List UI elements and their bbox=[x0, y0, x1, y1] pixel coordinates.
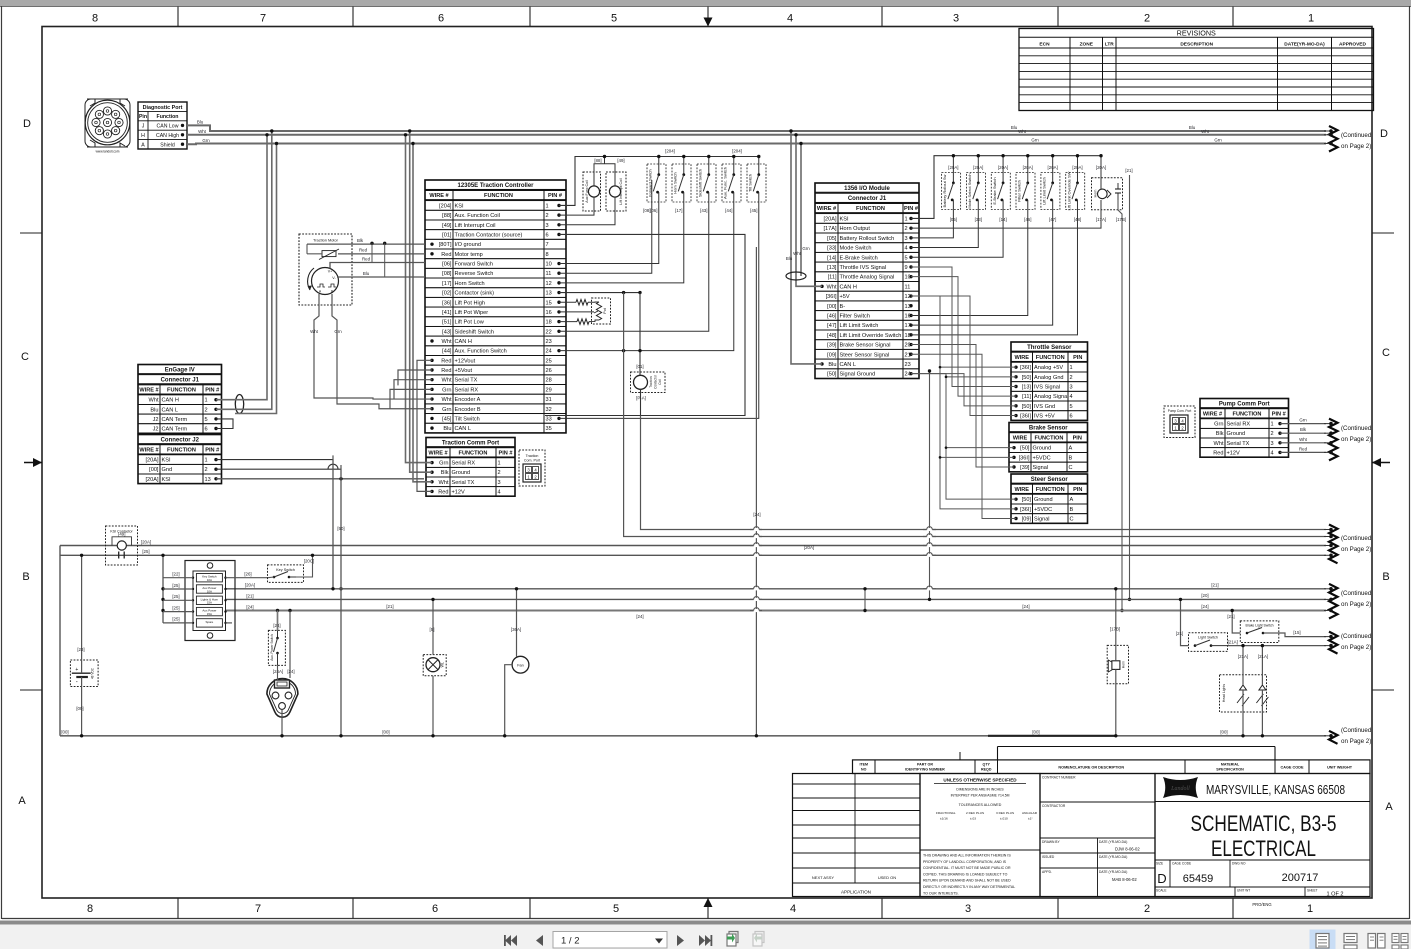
traction comm port left wires bbox=[430, 461, 433, 493]
switch S7 Mode Select Switch bbox=[967, 173, 986, 210]
Throttle Sensor table bbox=[1011, 342, 1088, 420]
svg-text:4: 4 bbox=[498, 489, 501, 495]
svg-text:Shield: Shield bbox=[160, 142, 175, 148]
svg-text:FUNCTION: FUNCTION bbox=[1036, 355, 1065, 361]
svg-text:PIN #: PIN # bbox=[1272, 411, 1287, 417]
svg-text:5: 5 bbox=[205, 417, 208, 423]
svg-text:PIN: PIN bbox=[1073, 435, 1082, 441]
svg-text:Signal: Signal bbox=[1033, 465, 1049, 471]
svg-text:KSI: KSI bbox=[162, 477, 171, 483]
svg-text:FUNCTION: FUNCTION bbox=[1233, 411, 1262, 417]
svg-text:[21]: [21] bbox=[1227, 614, 1234, 619]
svg-text:4: 4 bbox=[1271, 450, 1274, 456]
svg-text:Blu: Blu bbox=[828, 362, 836, 368]
svg-text:23: 23 bbox=[905, 362, 911, 368]
svg-text:1356 I/O Module: 1356 I/O Module bbox=[844, 186, 890, 192]
1356 I/O Module table bbox=[815, 183, 919, 379]
motor wires Blk Red to controller pins 7 8 bbox=[307, 243, 425, 245]
svg-text:DATE (YR-MO-DA): DATE (YR-MO-DA) bbox=[1099, 870, 1127, 874]
vertical net x333 bbox=[332, 455, 334, 588]
svg-text:1: 1 bbox=[1070, 365, 1073, 371]
fan M2 bbox=[512, 656, 529, 673]
diagnostic port table bbox=[138, 102, 187, 149]
svg-text:[80T]: [80T] bbox=[439, 242, 452, 248]
svg-text:INTERPRET PER ANSI/ASME Y14.5M: INTERPRET PER ANSI/ASME Y14.5M bbox=[951, 794, 1010, 798]
svg-text:ITEM: ITEM bbox=[859, 762, 868, 766]
toolbar last-page button bbox=[699, 935, 712, 946]
I/O switch feed bus 20A bbox=[911, 156, 1101, 219]
svg-text:Horn Switch: Horn Switch bbox=[455, 281, 485, 287]
svg-text:UNIT WEIGHT: UNIT WEIGHT bbox=[1327, 765, 1353, 769]
svg-text:PIN #: PIN # bbox=[548, 193, 563, 199]
svg-text:[39]: [39] bbox=[827, 343, 837, 349]
svg-text:CAGE CODE: CAGE CODE bbox=[1281, 765, 1304, 769]
revisions table bbox=[1019, 29, 1374, 111]
svg-text:Ground: Ground bbox=[1034, 497, 1053, 503]
svg-text:[20A]: [20A] bbox=[1072, 165, 1082, 170]
svg-text:±1°: ±1° bbox=[1028, 817, 1033, 821]
vertical net from traction area x682 bbox=[681, 202, 683, 283]
svg-text:DESCRIPTION: DESCRIPTION bbox=[1180, 41, 1213, 47]
svg-text:NO: NO bbox=[861, 767, 867, 771]
svg-text:DJW 8-06-02: DJW 8-06-02 bbox=[1115, 847, 1140, 852]
svg-text:[43]: [43] bbox=[442, 329, 452, 335]
svg-text:13: 13 bbox=[546, 291, 552, 297]
svg-text:[50]: [50] bbox=[337, 526, 344, 531]
traction comm port connector icon bbox=[519, 450, 545, 486]
svg-text:Forward Switch: Forward Switch bbox=[455, 262, 494, 268]
svg-text:IVS Signal: IVS Signal bbox=[1034, 385, 1060, 391]
svg-text:2: 2 bbox=[546, 213, 549, 219]
svg-text:WIRE #: WIRE # bbox=[817, 206, 837, 212]
svg-text:MAB 8-06-02: MAB 8-06-02 bbox=[1112, 877, 1137, 882]
svg-text:Mode Select Switch: Mode Select Switch bbox=[967, 173, 972, 208]
svg-text:[08]: [08] bbox=[643, 208, 650, 213]
continued-on-page-2 marker bbox=[1324, 727, 1372, 745]
Traction Comm Port table bbox=[426, 438, 515, 497]
svg-text:E-Brake Switch: E-Brake Switch bbox=[992, 177, 997, 204]
svg-text:23: 23 bbox=[546, 339, 552, 345]
svg-text:[20]: [20] bbox=[1201, 593, 1208, 598]
svg-text:[21]: [21] bbox=[246, 594, 253, 599]
svg-text:CAN Term: CAN Term bbox=[162, 417, 188, 423]
svg-text:4: 4 bbox=[905, 246, 908, 252]
Pump Comm Port table bbox=[1200, 399, 1289, 458]
svg-text:Wht: Wht bbox=[439, 480, 449, 486]
svg-text:+12Vout: +12Vout bbox=[455, 358, 476, 364]
svg-text:MARYSVILLE, KANSAS 66508: MARYSVILLE, KANSAS 66508 bbox=[1206, 783, 1345, 797]
svg-text:2: 2 bbox=[205, 407, 208, 413]
svg-text:REQD: REQD bbox=[981, 767, 992, 771]
svg-text:[23]: [23] bbox=[77, 647, 84, 652]
svg-text:J2: J2 bbox=[153, 427, 159, 433]
svg-text:29: 29 bbox=[546, 387, 552, 393]
continued-on-page-2 marker bbox=[1324, 419, 1372, 461]
svg-text:MATERIAL: MATERIAL bbox=[1221, 762, 1240, 766]
svg-text:Horn Output: Horn Output bbox=[840, 226, 871, 232]
svg-text:[20A]: [20A] bbox=[1096, 165, 1106, 170]
svg-text:WIRE #: WIRE # bbox=[139, 447, 159, 453]
svg-text:Grn: Grn bbox=[439, 461, 448, 467]
svg-text:3: 3 bbox=[965, 903, 971, 915]
svg-text:Wht: Wht bbox=[1201, 129, 1210, 134]
svg-text:Traction Motor: Traction Motor bbox=[313, 238, 339, 243]
KSI feed wire from pin 1 up to switch bus bbox=[559, 157, 759, 206]
horn output wire to pin 2 bbox=[911, 200, 1101, 228]
svg-text:Sideshift Switch: Sideshift Switch bbox=[455, 329, 494, 335]
svg-text:Grn: Grn bbox=[1031, 138, 1039, 143]
svg-text:[20A]: [20A] bbox=[948, 165, 958, 170]
svg-text:Ground: Ground bbox=[1227, 431, 1246, 437]
svg-text:Mode Switch: Mode Switch bbox=[840, 246, 872, 252]
fuse output wires bbox=[226, 577, 269, 579]
svg-text:+12V: +12V bbox=[452, 489, 465, 495]
svg-text:[50]: [50] bbox=[1020, 446, 1030, 452]
svg-text:15A: 15A bbox=[207, 612, 212, 616]
twisted pair loop at EnGage CAN bbox=[235, 395, 243, 414]
svg-text:CONTRACT NUMBER: CONTRACT NUMBER bbox=[1042, 776, 1076, 780]
svg-text:[11]: [11] bbox=[828, 275, 837, 281]
vertical net x865 bbox=[864, 589, 866, 611]
svg-text:[20C]: [20C] bbox=[304, 559, 315, 564]
svg-text:8: 8 bbox=[546, 252, 549, 258]
lift interrupt coil bbox=[606, 172, 626, 211]
svg-text:Contactor: Contactor bbox=[654, 374, 658, 389]
svg-text:PROPERTY OF LANDOLL CORPORATIO: PROPERTY OF LANDOLL CORPORATION, AND IS bbox=[923, 860, 1007, 864]
svg-text:Sideshift Switch: Sideshift Switch bbox=[698, 169, 703, 197]
pump comm port wires to page 2 bbox=[1278, 422, 1281, 425]
svg-text:Motor temp: Motor temp bbox=[455, 252, 483, 258]
svg-text:[21A]: [21A] bbox=[1238, 654, 1248, 659]
fuse panel feed vertical bbox=[162, 555, 164, 623]
svg-text:Wht: Wht bbox=[198, 129, 207, 134]
svg-text:RETURN UPON DEMAND AND SHALL N: RETURN UPON DEMAND AND SHALL NOT BE USED bbox=[923, 879, 1011, 883]
svg-text:Aux. Power Switch: Aux. Power Switch bbox=[270, 634, 274, 661]
svg-text:(Continued: (Continued bbox=[1341, 132, 1372, 139]
J1 21 wire down right side bbox=[1129, 175, 1131, 599]
svg-text:Traction Contactor (source): Traction Contactor (source) bbox=[455, 233, 523, 239]
svg-text:±.010: ±.010 bbox=[1000, 817, 1008, 821]
work light WL bbox=[423, 655, 446, 676]
title block bbox=[793, 747, 1371, 898]
svg-text:2: 2 bbox=[498, 470, 501, 476]
CAN term jumper wires bbox=[216, 419, 233, 429]
svg-text:B: B bbox=[1069, 455, 1073, 461]
svg-text:[24]: [24] bbox=[753, 512, 760, 517]
viewer top gray bar bbox=[0, 0, 1411, 7]
svg-text:Red: Red bbox=[441, 368, 451, 374]
svg-text:Throttle IVS Signal: Throttle IVS Signal bbox=[840, 265, 887, 271]
svg-text:[33]: [33] bbox=[827, 246, 837, 252]
light switch feed wire bbox=[1181, 599, 1189, 645]
horn HN1 in dashed box with capacitor bbox=[1092, 178, 1123, 210]
svg-text:KSI: KSI bbox=[162, 458, 171, 464]
svg-text:PIN #: PIN # bbox=[904, 206, 919, 212]
svg-text:C: C bbox=[1070, 517, 1074, 523]
svg-text:7: 7 bbox=[260, 13, 266, 25]
svg-text:[09]: [09] bbox=[827, 352, 837, 358]
svg-text:Brake Light Switch: Brake Light Switch bbox=[1245, 624, 1273, 628]
svg-text:Coil: Coil bbox=[658, 379, 662, 385]
key switch SW-K bbox=[268, 565, 304, 583]
svg-text:±1/16: ±1/16 bbox=[940, 817, 948, 821]
switch S1 second pole wire bbox=[651, 180, 653, 202]
svg-text:4: 4 bbox=[790, 903, 796, 915]
svg-text:[204]: [204] bbox=[439, 203, 452, 209]
svg-text:[49]: [49] bbox=[442, 223, 452, 229]
svg-text:[17B]: [17B] bbox=[1110, 627, 1120, 632]
svg-text:Horn Switch: Horn Switch bbox=[673, 172, 678, 194]
svg-text:KSI: KSI bbox=[840, 217, 849, 223]
svg-text:6: 6 bbox=[205, 427, 208, 433]
svg-text:3: 3 bbox=[1271, 441, 1274, 447]
svg-text:Blu: Blu bbox=[786, 256, 793, 261]
serial bus drop wires bbox=[406, 135, 433, 463]
svg-text:ELECTRICAL: ELECTRICAL bbox=[1211, 836, 1316, 861]
EnGage pin dots and wires bbox=[214, 398, 217, 480]
svg-text:THIS DRAWING AND ALL INFORMATI: THIS DRAWING AND ALL INFORMATION THEREIN… bbox=[923, 854, 1011, 858]
svg-text:PIN: PIN bbox=[1073, 487, 1082, 493]
svg-text:WIRE #: WIRE # bbox=[429, 193, 449, 199]
svg-text:8: 8 bbox=[92, 13, 98, 25]
svg-text:Pump Com. Port: Pump Com. Port bbox=[1168, 409, 1192, 413]
svg-text:[17B]: [17B] bbox=[1116, 217, 1126, 222]
svg-text:2: 2 bbox=[1144, 13, 1150, 25]
svg-text:SPECIFICATION: SPECIFICATION bbox=[1216, 767, 1244, 771]
svg-text:5: 5 bbox=[905, 255, 908, 261]
svg-text:CAN High: CAN High bbox=[156, 133, 179, 139]
continued-on-page-2 marker bbox=[1324, 126, 1372, 152]
svg-text:24: 24 bbox=[546, 349, 552, 355]
svg-text:Blu: Blu bbox=[1189, 125, 1196, 130]
svg-text:10A: 10A bbox=[207, 589, 212, 593]
sensor left-entry dots bbox=[1012, 365, 1017, 520]
svg-text:[46]: [46] bbox=[827, 314, 837, 320]
switch S2 Horn Switch bbox=[672, 164, 691, 202]
svg-text:Blu: Blu bbox=[150, 407, 158, 413]
traction motor dashed box bbox=[299, 234, 352, 305]
svg-text:[36I]: [36I] bbox=[1019, 455, 1030, 461]
svg-text:ISSUED: ISSUED bbox=[1042, 855, 1055, 859]
svg-text:Lift Pot Wiper: Lift Pot Wiper bbox=[455, 310, 489, 316]
svg-text:7: 7 bbox=[546, 242, 549, 248]
receptacle ground wire bbox=[281, 710, 283, 736]
svg-text:[17A]: [17A] bbox=[823, 226, 837, 232]
lift pot wiper wire bbox=[559, 311, 594, 313]
toolbar page number box 1 / 2 bbox=[553, 932, 667, 949]
horn wires bbox=[1115, 589, 1117, 661]
svg-text:(Continued: (Continued bbox=[1341, 633, 1372, 640]
svg-text:[36]: [36] bbox=[442, 300, 452, 306]
svg-text:REVISIONS: REVISIONS bbox=[1177, 29, 1216, 38]
fan wires bbox=[516, 589, 518, 657]
svg-text:UNIT WT: UNIT WT bbox=[1237, 889, 1250, 893]
svg-text:Blk: Blk bbox=[357, 238, 364, 243]
svg-text:Serial TX: Serial TX bbox=[455, 378, 478, 384]
svg-text:C: C bbox=[21, 351, 29, 363]
svg-text:APPD.: APPD. bbox=[1042, 870, 1052, 874]
svg-text:PRO/ENG: PRO/ENG bbox=[1252, 902, 1271, 907]
svg-text:[00]: [00] bbox=[827, 304, 837, 310]
svg-text:on Page 2): on Page 2) bbox=[1341, 644, 1371, 651]
svg-text:Serial RX: Serial RX bbox=[452, 461, 476, 467]
svg-text:A: A bbox=[1069, 446, 1073, 452]
svg-text:Grn: Grn bbox=[1214, 138, 1222, 143]
lift pot resistor high bbox=[559, 301, 576, 303]
svg-text:[49]: [49] bbox=[118, 531, 125, 536]
svg-text:[45]: [45] bbox=[750, 208, 757, 213]
svg-text:16: 16 bbox=[546, 310, 552, 316]
svg-text:DIRECTLY OR INDIRECTLY IN ANY: DIRECTLY OR INDIRECTLY IN ANY WAY DETRIM… bbox=[923, 885, 1015, 889]
svg-text:35: 35 bbox=[546, 426, 552, 432]
svg-text:Grn: Grn bbox=[442, 387, 451, 393]
svg-text:WIRE: WIRE bbox=[1014, 355, 1029, 361]
svg-text:3: 3 bbox=[546, 223, 549, 229]
wire net 20A horizontal bbox=[226, 588, 1327, 590]
svg-text:+12V: +12V bbox=[1227, 450, 1240, 456]
svg-text:KSI: KSI bbox=[455, 203, 464, 209]
svg-text:32: 32 bbox=[546, 407, 552, 413]
svg-text:Lift Limit Switch: Lift Limit Switch bbox=[1042, 177, 1047, 205]
svg-text:[204]: [204] bbox=[732, 149, 742, 154]
svg-text:[20A]: [20A] bbox=[823, 217, 837, 223]
svg-text:Steer Sensor Signal: Steer Sensor Signal bbox=[840, 352, 890, 358]
svg-text:on Page 2): on Page 2) bbox=[1341, 143, 1371, 150]
motor thermistor symbol bbox=[319, 249, 339, 260]
svg-text:+: + bbox=[75, 667, 78, 673]
svg-text:CAN H: CAN H bbox=[162, 398, 179, 404]
page bottom edge and toolbar divider bbox=[2, 918, 1409, 920]
svg-text:A: A bbox=[1070, 497, 1074, 503]
svg-text:B: B bbox=[1070, 507, 1074, 513]
svg-text:Traction: Traction bbox=[526, 454, 539, 458]
contactor coil wires bbox=[639, 293, 641, 376]
svg-text:(Continued: (Continued bbox=[1341, 727, 1372, 734]
svg-text:A: A bbox=[141, 142, 145, 148]
svg-text:[22]: [22] bbox=[172, 572, 179, 577]
svg-text:2: 2 bbox=[1070, 375, 1073, 381]
svg-text:Blk: Blk bbox=[1216, 431, 1224, 437]
svg-text:Red: Red bbox=[438, 489, 448, 495]
svg-text:on Page 2): on Page 2) bbox=[1341, 436, 1371, 443]
svg-text:Lift Interrupt Coil: Lift Interrupt Coil bbox=[455, 223, 496, 229]
horn (bottom) H1 bbox=[1107, 645, 1128, 683]
aux power switch to receptacle wire bbox=[277, 665, 279, 680]
CAN bus wire Grn shield from diagnostic port bbox=[187, 143, 1326, 146]
svg-text:6: 6 bbox=[546, 233, 549, 239]
svg-text:Light Switch: Light Switch bbox=[1198, 636, 1218, 640]
svg-text:6: 6 bbox=[438, 13, 444, 25]
svg-text:Pump Comm Port: Pump Comm Port bbox=[1219, 401, 1270, 407]
svg-text:Lift Limit Switch: Lift Limit Switch bbox=[840, 323, 879, 329]
svg-text:[36A]: [36A] bbox=[511, 627, 521, 632]
svg-text:UNLESS OTHERWISE SPECIFIED: UNLESS OTHERWISE SPECIFIED bbox=[943, 778, 1017, 783]
svg-text:CAN H: CAN H bbox=[840, 284, 857, 290]
battery B1 48VDC bbox=[70, 660, 98, 687]
svg-text:11: 11 bbox=[905, 284, 911, 290]
svg-text:[5]: [5] bbox=[430, 627, 435, 632]
pump comm port connector icon bbox=[1164, 406, 1195, 438]
svg-text:PIN #: PIN # bbox=[205, 388, 220, 394]
svg-text:DIMENSIONS ARE IN INCHES: DIMENSIONS ARE IN INCHES bbox=[956, 788, 1004, 792]
svg-text:WIRE #: WIRE # bbox=[1203, 411, 1223, 417]
svg-text:Steer Sensor: Steer Sensor bbox=[1031, 477, 1069, 483]
svg-text:Ground: Ground bbox=[1033, 446, 1052, 452]
svg-text:[26]: [26] bbox=[244, 572, 251, 577]
svg-text:SIZE: SIZE bbox=[1156, 862, 1163, 866]
head lights bbox=[1220, 675, 1269, 712]
svg-text:1: 1 bbox=[205, 398, 208, 404]
svg-text:Red: Red bbox=[359, 248, 368, 253]
toolbar continuous layout icon bbox=[1344, 934, 1357, 949]
svg-text:[51]: [51] bbox=[442, 320, 452, 326]
svg-text:Red: Red bbox=[441, 358, 451, 364]
svg-text:Analog Signal: Analog Signal bbox=[1034, 394, 1069, 400]
svg-text:5: 5 bbox=[611, 13, 617, 25]
svg-text:3: 3 bbox=[1070, 385, 1073, 391]
svg-text:6: 6 bbox=[1070, 414, 1073, 420]
svg-text:[41]: [41] bbox=[442, 310, 452, 316]
svg-text:(Continued: (Continued bbox=[1341, 425, 1372, 432]
svg-text:7: 7 bbox=[255, 903, 261, 915]
svg-text:5: 5 bbox=[613, 903, 619, 915]
switch S9 Filter Switch bbox=[1016, 173, 1035, 210]
svg-text:B-: B- bbox=[840, 304, 846, 310]
viewer bottom toolbar bbox=[0, 925, 1411, 949]
svg-text:DWG NO: DWG NO bbox=[1232, 862, 1246, 866]
svg-text:1: 1 bbox=[1271, 422, 1274, 428]
EnGage IV connector J2 table bbox=[138, 435, 222, 484]
svg-text:[25]: [25] bbox=[142, 549, 149, 554]
svg-text:D: D bbox=[23, 118, 31, 130]
svg-text:+5Vout: +5Vout bbox=[455, 368, 473, 374]
svg-text:IVS +5V: IVS +5V bbox=[1034, 414, 1055, 420]
svg-text:WIRE: WIRE bbox=[1013, 435, 1028, 441]
svg-text:SCHEMATIC, B3-5: SCHEMATIC, B3-5 bbox=[1191, 811, 1337, 836]
switch S5 Tilt Switch bbox=[747, 164, 766, 202]
svg-text:Wht: Wht bbox=[1299, 437, 1308, 442]
svg-text:DRAWN BY: DRAWN BY bbox=[1042, 840, 1060, 844]
svg-text:[20A]: [20A] bbox=[1023, 165, 1033, 170]
toolbar page-copy icon 2 (disabled) bbox=[753, 932, 764, 947]
svg-text:Serial RX: Serial RX bbox=[455, 387, 479, 393]
svg-text:FUNCTION: FUNCTION bbox=[167, 388, 196, 394]
svg-text:Battery Rollout Sw: Battery Rollout Sw bbox=[942, 174, 947, 207]
svg-text:[00]: [00] bbox=[1032, 730, 1039, 735]
svg-text:FRACTIONAL: FRACTIONAL bbox=[936, 811, 956, 815]
I/O module pin dots bbox=[820, 217, 912, 376]
svg-text:Encoder B: Encoder B bbox=[455, 407, 481, 413]
svg-text:USED ON: USED ON bbox=[878, 875, 896, 880]
svg-text:[25]: [25] bbox=[172, 583, 179, 588]
svg-text:[25]: [25] bbox=[172, 617, 179, 622]
svg-text:Grn: Grn bbox=[334, 329, 342, 334]
lift pot resistor low bbox=[559, 321, 577, 323]
continued-on-page-2 marker bbox=[1324, 632, 1372, 654]
svg-text:±.03: ±.03 bbox=[970, 817, 976, 821]
svg-text:Gnd: Gnd bbox=[162, 467, 173, 473]
svg-text:1: 1 bbox=[1307, 903, 1313, 915]
svg-text:Red: Red bbox=[441, 252, 451, 258]
svg-text:Function: Function bbox=[157, 114, 179, 120]
svg-text:[21A]: [21A] bbox=[1258, 654, 1268, 659]
svg-text:Connector J2: Connector J2 bbox=[161, 437, 200, 443]
continued-on-page-2 marker bbox=[1324, 525, 1372, 564]
svg-text:[204]: [204] bbox=[665, 149, 675, 154]
svg-text:Red: Red bbox=[1299, 446, 1308, 451]
wire net 15 and 21A to page 2 bbox=[1296, 636, 1326, 638]
svg-text:ANGULAR: ANGULAR bbox=[1022, 811, 1038, 815]
